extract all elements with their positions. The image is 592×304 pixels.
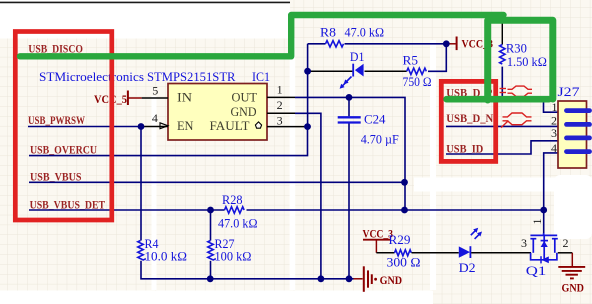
white streak right — [430, 40, 436, 290]
IC1 pin 3 stub — [267, 126, 308, 128]
red annotation box 1 — [15, 32, 112, 221]
wire J27 pin4 down to VBUS — [544, 153, 558, 210]
wire USB_PWRSW to EN — [28, 126, 142, 128]
wire USB_VBUS_DET to R28 — [29, 209, 225, 211]
white margin top-left — [0, 0, 290, 39]
wire OUT row — [295, 97, 405, 210]
svg-text:3: 3 — [521, 236, 527, 250]
wire USB_ID to J27 pin3 — [446, 141, 558, 154]
svg-text:10.0 kΩ: 10.0 kΩ — [145, 250, 188, 264]
wire R8 D1 left verticals — [307, 44, 309, 127]
svg-text:3: 3 — [277, 113, 283, 127]
power port VCC_5 — [94, 91, 142, 107]
wire GND pin2 down — [295, 113, 321, 278]
svg-text:IC1: IC1 — [252, 69, 270, 84]
J27 pin 2 bar — [567, 122, 590, 127]
IC1 pin names — [177, 90, 257, 134]
svg-text:D2: D2 — [459, 261, 476, 275]
wire R27 bottom lead — [210, 261, 212, 279]
junction node Q1 drain — [540, 207, 547, 214]
svg-text:R30: R30 — [506, 42, 527, 56]
wire node FAULT to D1 cathode — [308, 70, 353, 72]
J27 pin 4 bar — [567, 149, 590, 154]
junction node VCC_3 — [443, 40, 450, 47]
svg-text:R8: R8 — [320, 26, 336, 40]
svg-text:4: 4 — [152, 111, 158, 125]
op-amp IC1 body — [168, 84, 267, 141]
wire R8 right to VCC_3 node — [345, 43, 447, 45]
resistor R29 — [387, 233, 421, 270]
svg-text:GND: GND — [231, 104, 257, 119]
J27 pin 3 bar — [567, 135, 590, 140]
wire C24 top lead — [348, 97, 350, 116]
svg-text:USB_PWRSW: USB_PWRSW — [28, 115, 85, 127]
svg-text:J27: J27 — [558, 85, 580, 99]
wire R28 to Q1 drain node — [247, 209, 544, 211]
green highlight polyline — [20, 15, 504, 56]
svg-text:STMicroelectronics: STMicroelectronics — [39, 69, 144, 84]
white streak center — [290, 38, 296, 290]
green highlight rectangle — [488, 20, 553, 100]
svg-text:USB_D_N: USB_D_N — [446, 113, 494, 125]
resistor R28 — [218, 193, 258, 231]
svg-text:1: 1 — [277, 83, 283, 97]
green highlight bottom bar — [447, 96, 550, 103]
junction node rail/GND pin — [318, 275, 325, 282]
junction node rail/R27 — [207, 275, 214, 282]
white band right — [414, 178, 592, 192]
svg-text:R28: R28 — [222, 193, 243, 207]
resistor R4 — [138, 237, 187, 264]
wire EN pulldown vertical — [140, 127, 142, 241]
svg-text:GND: GND — [562, 283, 585, 295]
svg-text:100 kΩ: 100 kΩ — [215, 250, 252, 264]
IC1 pin 2 stub — [267, 112, 295, 114]
wire USB_VBUS — [29, 181, 405, 183]
svg-text:750 Ω: 750 Ω — [403, 75, 432, 89]
svg-text:STMPS2151STR: STMPS2151STR — [147, 69, 236, 84]
svg-text:Q1: Q1 — [526, 264, 547, 278]
wire R29 to D2 — [412, 252, 459, 254]
ground GND left bar-style — [354, 266, 403, 292]
svg-text:C24: C24 — [364, 113, 386, 127]
IC1 FAULT open-drain glyph — [255, 122, 261, 128]
junction node rail/C24 — [346, 275, 353, 282]
svg-text:R5: R5 — [403, 53, 419, 67]
resistor R8 — [320, 26, 384, 47]
svg-text:IN: IN — [177, 90, 193, 105]
IC1 title text — [39, 69, 270, 84]
capacitor C24 — [338, 113, 399, 147]
wire USB_OVERCU — [29, 127, 308, 156]
junction node USB_VBUS_DET/R27 — [207, 207, 214, 214]
differential pair marker D_P — [500, 86, 533, 96]
junction node FAULT pin 3 — [304, 123, 311, 130]
svg-text:GND: GND — [380, 275, 403, 287]
svg-text:4: 4 — [551, 141, 557, 155]
svg-text:D1: D1 — [350, 50, 365, 64]
wire USB_D_N to J27 pin2 — [446, 125, 558, 127]
power port VCC_3 bottom — [363, 228, 394, 253]
J27 pin 1 bar — [567, 108, 590, 113]
resistor R30 — [500, 21, 547, 100]
svg-text:2: 2 — [563, 236, 569, 250]
wire D1 anode to R5 — [365, 70, 407, 72]
junction node VBUS sense — [401, 207, 408, 214]
power port VCC_3 top — [446, 37, 493, 51]
white streak left — [152, 96, 157, 290]
svg-text:1.50 kΩ: 1.50 kΩ — [507, 55, 547, 69]
svg-text:OUT: OUT — [232, 90, 258, 105]
junction node R8/D1 — [304, 68, 311, 75]
wire ground rail — [141, 261, 354, 279]
svg-text:FAULT: FAULT — [210, 118, 250, 133]
diode D1 (LED) — [340, 50, 365, 88]
svg-text:2: 2 — [277, 98, 283, 112]
svg-text:R29: R29 — [389, 233, 411, 247]
transistor Q1 MOSFET — [530, 233, 557, 263]
wire R27 top lead — [210, 210, 212, 241]
IC1 EN input arrow glyph — [160, 123, 168, 129]
differential pair marker D_N — [501, 113, 532, 128]
svg-text:5: 5 — [152, 84, 158, 98]
IC1 pin 1 stub — [267, 96, 295, 98]
wire D2 to Q1 gate — [471, 252, 531, 254]
svg-text:47.0 kΩ: 47.0 kΩ — [218, 217, 258, 231]
ground GND right — [558, 253, 585, 295]
white blob right — [554, 175, 592, 239]
svg-text:47.0 kΩ: 47.0 kΩ — [345, 26, 385, 40]
wire Q1 drain — [543, 210, 545, 235]
window edge black line — [0, 1, 290, 3]
svg-text:4.70 µF: 4.70 µF — [361, 132, 399, 146]
svg-text:300 Ω: 300 Ω — [387, 256, 421, 270]
wire VCC_3 to R29 — [376, 252, 394, 254]
white margin bottom — [0, 291, 433, 304]
svg-text:3: 3 — [551, 126, 557, 140]
resistor R5 — [403, 53, 432, 89]
svg-text:1: 1 — [530, 219, 544, 225]
wire C24 bottom lead — [348, 123, 350, 278]
diode D2 (LED) — [459, 228, 482, 275]
wire R5 right up to VCC — [428, 44, 446, 72]
junction node USB_VBUS — [401, 179, 408, 186]
wire node FAULT to R8 left — [308, 43, 326, 45]
connector J27 body — [558, 101, 587, 168]
IC1 pin 5 stub — [142, 97, 168, 99]
red annotation box 2 — [441, 81, 495, 161]
IC1 pin 4 stub — [142, 126, 169, 128]
junction node EN/USB_PWRSW — [138, 123, 145, 130]
wire USB_D_P to J27 pin1 — [446, 100, 558, 112]
svg-text:EN: EN — [177, 118, 194, 133]
resistor R27 — [208, 237, 252, 264]
wire Q1 source pin 2 to GND — [558, 252, 573, 254]
junction node OUT/C24 — [346, 94, 353, 101]
